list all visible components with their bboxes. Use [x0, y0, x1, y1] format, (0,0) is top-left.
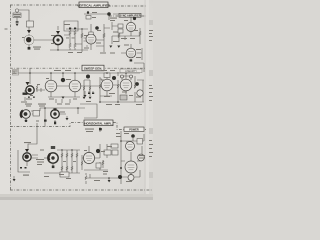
svg-text:LINEARITY: LINEARITY — [125, 70, 137, 73]
svg-text:VERTICAL AMPLIFIER: VERTICAL AMPLIFIER — [77, 3, 111, 7]
svg-text:HORIZONTAL AMPL.: HORIZONTAL AMPL. — [84, 121, 113, 125]
svg-text:POWER: POWER — [129, 129, 139, 132]
svg-text:SYNC AMPLIFIER: SYNC AMPLIFIER — [119, 15, 140, 18]
svg-text:SWEEP GEN.: SWEEP GEN. — [84, 67, 102, 71]
